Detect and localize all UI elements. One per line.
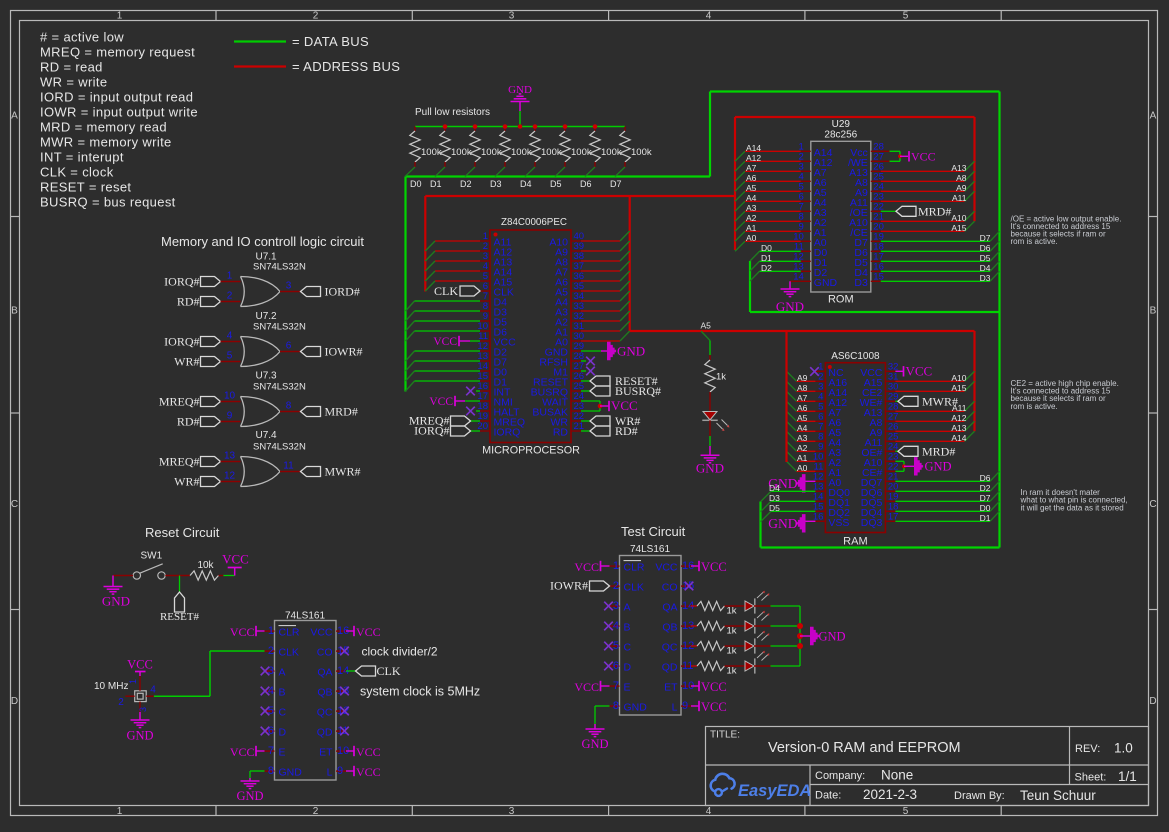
svg-text:IOWR#: IOWR# bbox=[325, 345, 363, 359]
svg-text:CLK: CLK bbox=[279, 647, 299, 659]
svg-text:2021-2-3: 2021-2-3 bbox=[863, 787, 917, 802]
svg-text:MRD#: MRD# bbox=[918, 204, 951, 218]
svg-text:VCC: VCC bbox=[230, 625, 255, 639]
svg-text:D6: D6 bbox=[580, 179, 592, 189]
svg-text:A4: A4 bbox=[746, 193, 757, 203]
svg-text:# = active low: # = active low bbox=[40, 30, 124, 45]
svg-text:VCC: VCC bbox=[356, 745, 381, 759]
svg-text:C: C bbox=[279, 707, 287, 719]
svg-text:GND: GND bbox=[696, 461, 724, 476]
svg-text:VCC: VCC bbox=[911, 150, 936, 164]
svg-text:IORQ: IORQ bbox=[494, 427, 521, 439]
svg-text:D3: D3 bbox=[769, 493, 780, 503]
svg-text:D: D bbox=[279, 727, 287, 739]
svg-text:8: 8 bbox=[286, 401, 292, 412]
svg-text:Test Circuit: Test Circuit bbox=[621, 524, 686, 539]
svg-text:QD: QD bbox=[662, 662, 678, 674]
svg-text:D7: D7 bbox=[980, 493, 991, 503]
svg-text:1/1: 1/1 bbox=[1118, 769, 1137, 784]
svg-text:D: D bbox=[624, 662, 632, 674]
svg-text:100k: 100k bbox=[601, 147, 622, 158]
svg-text:BUSRQ = bus request: BUSRQ = bus request bbox=[40, 195, 176, 210]
svg-text:4: 4 bbox=[227, 331, 233, 342]
svg-text:C: C bbox=[624, 642, 632, 654]
svg-text:SN74LS32N: SN74LS32N bbox=[253, 262, 306, 273]
svg-text:GND: GND bbox=[776, 299, 804, 314]
svg-text:A11: A11 bbox=[952, 193, 967, 203]
svg-text:2: 2 bbox=[613, 580, 619, 592]
svg-text:RD = read: RD = read bbox=[40, 60, 103, 75]
svg-text:2: 2 bbox=[313, 806, 319, 817]
svg-text:IORD = input output read: IORD = input output read bbox=[40, 90, 193, 105]
svg-text:MRD#: MRD# bbox=[325, 405, 358, 419]
svg-text:D1: D1 bbox=[980, 513, 991, 523]
svg-text:28c256: 28c256 bbox=[824, 130, 857, 141]
svg-text:ET: ET bbox=[664, 682, 678, 694]
svg-text:D2: D2 bbox=[460, 179, 472, 189]
svg-text:A5: A5 bbox=[797, 413, 808, 423]
svg-text:Version-0 RAM and EEPROM: Version-0 RAM and EEPROM bbox=[768, 740, 961, 756]
svg-text:QB: QB bbox=[317, 687, 332, 699]
svg-text:1: 1 bbox=[227, 271, 233, 282]
svg-text:A1: A1 bbox=[797, 453, 808, 463]
svg-text:QA: QA bbox=[662, 602, 677, 614]
svg-text:100k: 100k bbox=[571, 147, 592, 158]
svg-text:GND: GND bbox=[581, 737, 608, 751]
svg-text:D0: D0 bbox=[761, 243, 772, 253]
svg-text:C: C bbox=[1149, 499, 1156, 510]
svg-text:None: None bbox=[881, 768, 913, 783]
svg-text:A8: A8 bbox=[956, 173, 967, 183]
svg-text:11: 11 bbox=[283, 461, 294, 472]
svg-text:10: 10 bbox=[224, 391, 236, 402]
svg-text:4: 4 bbox=[613, 620, 619, 632]
svg-text:74LS161: 74LS161 bbox=[285, 611, 325, 622]
svg-text:VCC: VCC bbox=[356, 765, 381, 779]
svg-text:B: B bbox=[279, 687, 286, 699]
svg-text:A10: A10 bbox=[951, 373, 966, 383]
svg-text:VCC: VCC bbox=[701, 700, 727, 714]
svg-text:D1: D1 bbox=[761, 253, 772, 263]
svg-text:VCC: VCC bbox=[433, 336, 457, 348]
svg-text:CLK = clock: CLK = clock bbox=[40, 165, 114, 180]
svg-text:A2: A2 bbox=[797, 443, 808, 453]
svg-text:1k: 1k bbox=[727, 606, 737, 617]
svg-text:Company:: Company: bbox=[815, 770, 865, 782]
svg-text:VCC: VCC bbox=[310, 627, 333, 639]
svg-text:SW1: SW1 bbox=[141, 551, 163, 562]
svg-text:A5: A5 bbox=[701, 321, 712, 331]
svg-text:A12: A12 bbox=[951, 413, 966, 423]
svg-text:A9: A9 bbox=[956, 183, 967, 193]
svg-text:MRD = memory read: MRD = memory read bbox=[40, 120, 167, 135]
svg-text:GND: GND bbox=[819, 630, 846, 644]
svg-text:MREQ#: MREQ# bbox=[159, 455, 200, 469]
svg-text:11: 11 bbox=[337, 725, 348, 737]
svg-text:VCC: VCC bbox=[701, 680, 727, 694]
svg-text:A2: A2 bbox=[746, 213, 757, 223]
svg-text:74LS161: 74LS161 bbox=[630, 544, 670, 555]
svg-text:GND: GND bbox=[768, 516, 797, 531]
svg-text:12: 12 bbox=[224, 471, 236, 482]
svg-text:GND: GND bbox=[624, 702, 648, 714]
svg-text:5: 5 bbox=[227, 351, 233, 362]
svg-text:IOWR = input output write: IOWR = input output write bbox=[40, 105, 198, 120]
svg-text:A15: A15 bbox=[951, 223, 966, 233]
svg-text:EasyEDA: EasyEDA bbox=[738, 782, 811, 800]
svg-text:BUSRQ#: BUSRQ# bbox=[615, 384, 661, 398]
svg-text:Teun Schuur: Teun Schuur bbox=[1020, 788, 1096, 803]
svg-text:ET: ET bbox=[319, 747, 333, 759]
svg-text:CLK: CLK bbox=[377, 664, 401, 678]
svg-text:GND: GND bbox=[279, 767, 303, 779]
svg-text:INT = interupt: INT = interupt bbox=[40, 150, 124, 165]
svg-text:IORQ#: IORQ# bbox=[164, 335, 199, 349]
svg-text:10 MHz: 10 MHz bbox=[94, 681, 128, 692]
svg-text:A: A bbox=[624, 602, 631, 614]
svg-text:A0: A0 bbox=[746, 233, 757, 243]
svg-text:1k: 1k bbox=[727, 666, 737, 677]
svg-text:5: 5 bbox=[903, 806, 909, 817]
svg-text:RD#: RD# bbox=[177, 415, 200, 429]
svg-text:D3: D3 bbox=[980, 273, 991, 283]
svg-text:9: 9 bbox=[682, 700, 688, 712]
svg-text:7: 7 bbox=[268, 745, 274, 757]
svg-text:Z84C0006PEC: Z84C0006PEC bbox=[501, 217, 567, 228]
svg-text:A15: A15 bbox=[951, 383, 966, 393]
svg-text:2: 2 bbox=[227, 291, 233, 302]
svg-text:D3: D3 bbox=[854, 277, 868, 289]
svg-text:RD: RD bbox=[553, 427, 569, 439]
svg-text:B: B bbox=[11, 306, 18, 317]
svg-text:RESET = reset: RESET = reset bbox=[40, 180, 131, 195]
svg-text:QA: QA bbox=[317, 667, 332, 679]
svg-text:MWR = memory write: MWR = memory write bbox=[40, 135, 172, 150]
svg-text:CLR: CLR bbox=[279, 627, 300, 639]
svg-text:WR#: WR# bbox=[174, 475, 199, 489]
svg-text:MICROPROCESOR: MICROPROCESOR bbox=[482, 445, 580, 457]
svg-text:RAM: RAM bbox=[843, 536, 867, 548]
svg-text:100k: 100k bbox=[631, 147, 652, 158]
svg-text:8: 8 bbox=[613, 700, 619, 712]
svg-text:A: A bbox=[279, 667, 286, 679]
svg-text:6: 6 bbox=[286, 341, 292, 352]
svg-text:D4: D4 bbox=[520, 179, 532, 189]
svg-text:Sheet:: Sheet: bbox=[1075, 772, 1107, 784]
svg-text:VCC: VCC bbox=[906, 364, 933, 379]
svg-text:13: 13 bbox=[224, 451, 236, 462]
svg-text:U7.2: U7.2 bbox=[256, 311, 278, 322]
svg-text:U29: U29 bbox=[832, 119, 851, 130]
svg-text:1k: 1k bbox=[727, 646, 737, 657]
svg-text:D4: D4 bbox=[980, 263, 991, 273]
svg-text:A6: A6 bbox=[746, 173, 757, 183]
svg-text:1k: 1k bbox=[727, 626, 737, 637]
svg-text:D5: D5 bbox=[769, 503, 780, 513]
svg-text:4: 4 bbox=[706, 11, 712, 22]
svg-text:CLK: CLK bbox=[434, 284, 458, 298]
svg-text:rom is active.: rom is active. bbox=[1011, 237, 1058, 246]
svg-text:8: 8 bbox=[268, 765, 274, 777]
svg-text:4: 4 bbox=[706, 806, 712, 817]
svg-text:VCC: VCC bbox=[701, 560, 727, 574]
svg-text:L: L bbox=[327, 767, 333, 779]
svg-text:it will get the data as it sto: it will get the data as it stored bbox=[1021, 503, 1124, 512]
svg-text:9: 9 bbox=[227, 411, 233, 422]
svg-text:D: D bbox=[1149, 696, 1156, 707]
svg-text:VCC: VCC bbox=[611, 398, 638, 413]
svg-text:RESET#: RESET# bbox=[160, 611, 200, 623]
svg-text:D2: D2 bbox=[980, 483, 991, 493]
svg-text:= ADDRESS BUS: = ADDRESS BUS bbox=[292, 59, 400, 74]
svg-text:1.0: 1.0 bbox=[1114, 741, 1133, 756]
svg-text:3: 3 bbox=[286, 281, 292, 292]
svg-text:CLK: CLK bbox=[624, 582, 644, 594]
svg-text:A1: A1 bbox=[746, 223, 757, 233]
svg-text:A6: A6 bbox=[797, 403, 808, 413]
svg-text:A14: A14 bbox=[951, 433, 966, 443]
svg-text:GND: GND bbox=[508, 84, 532, 96]
svg-text:1: 1 bbox=[117, 11, 123, 22]
svg-text:1k: 1k bbox=[716, 372, 726, 383]
svg-text:100k: 100k bbox=[421, 147, 442, 158]
svg-text:GND: GND bbox=[126, 729, 153, 743]
svg-text:D3: D3 bbox=[490, 179, 502, 189]
svg-text:5: 5 bbox=[613, 640, 619, 652]
svg-text:D6: D6 bbox=[980, 473, 991, 483]
svg-text:1: 1 bbox=[117, 806, 123, 817]
svg-text:IORQ#: IORQ# bbox=[164, 275, 199, 289]
svg-text:VCC: VCC bbox=[230, 745, 255, 759]
svg-text:A13: A13 bbox=[951, 163, 966, 173]
svg-text:VCC: VCC bbox=[127, 658, 153, 672]
svg-text:CO: CO bbox=[317, 647, 333, 659]
svg-text:QB: QB bbox=[662, 622, 677, 634]
svg-text:U7.3: U7.3 bbox=[256, 370, 278, 381]
svg-text:VCC: VCC bbox=[574, 680, 599, 694]
svg-text:E: E bbox=[624, 682, 631, 694]
svg-text:RD#: RD# bbox=[177, 295, 200, 309]
svg-text:D7: D7 bbox=[980, 233, 991, 243]
svg-text:E: E bbox=[279, 747, 286, 759]
svg-text:100k: 100k bbox=[451, 147, 472, 158]
svg-text:clock divider/2: clock divider/2 bbox=[362, 645, 438, 659]
svg-text:A9: A9 bbox=[797, 373, 808, 383]
svg-text:D5: D5 bbox=[550, 179, 562, 189]
svg-text:MRD#: MRD# bbox=[922, 444, 955, 458]
svg-text:MWR#: MWR# bbox=[922, 394, 958, 408]
svg-text:VCC: VCC bbox=[356, 625, 381, 639]
svg-text:GND: GND bbox=[925, 460, 952, 474]
svg-text:A12: A12 bbox=[746, 153, 761, 163]
svg-text:D0: D0 bbox=[980, 503, 991, 513]
svg-text:RD#: RD# bbox=[615, 424, 638, 438]
svg-text:MREQ = memory request: MREQ = memory request bbox=[40, 45, 195, 60]
svg-text:D7: D7 bbox=[610, 179, 622, 189]
svg-text:A: A bbox=[1150, 111, 1157, 122]
svg-text:D1: D1 bbox=[430, 179, 442, 189]
svg-text:GND: GND bbox=[814, 277, 838, 289]
svg-text:A7: A7 bbox=[746, 163, 757, 173]
svg-text:IOWR#: IOWR# bbox=[550, 579, 588, 593]
svg-text:A7: A7 bbox=[797, 393, 808, 403]
svg-text:A5: A5 bbox=[746, 183, 757, 193]
svg-text:A10: A10 bbox=[951, 213, 966, 223]
svg-text:GND: GND bbox=[102, 594, 130, 609]
svg-text:2: 2 bbox=[118, 697, 124, 708]
svg-text:B: B bbox=[1150, 306, 1157, 317]
svg-text:Pull low resistors: Pull low resistors bbox=[415, 107, 490, 118]
svg-text:AS6C1008: AS6C1008 bbox=[831, 351, 880, 362]
svg-text:L: L bbox=[672, 702, 678, 714]
svg-text:QC: QC bbox=[317, 707, 333, 719]
svg-text:= DATA BUS: = DATA BUS bbox=[292, 34, 369, 49]
svg-text:TITLE:: TITLE: bbox=[710, 730, 740, 741]
svg-text:3: 3 bbox=[138, 707, 148, 712]
svg-text:A3: A3 bbox=[797, 433, 808, 443]
svg-text:100k: 100k bbox=[511, 147, 532, 158]
svg-text:QD: QD bbox=[317, 727, 333, 739]
svg-text:WR#: WR# bbox=[174, 355, 199, 369]
svg-text:QC: QC bbox=[662, 642, 678, 654]
svg-text:D: D bbox=[11, 696, 18, 707]
svg-text:1: 1 bbox=[268, 625, 274, 637]
svg-text:5: 5 bbox=[903, 11, 909, 22]
svg-text:IORD#: IORD# bbox=[325, 285, 360, 299]
svg-text:D0: D0 bbox=[410, 179, 422, 189]
svg-text:SN74LS32N: SN74LS32N bbox=[253, 442, 306, 453]
svg-text:100k: 100k bbox=[541, 147, 562, 158]
svg-text:MREQ#: MREQ# bbox=[159, 395, 200, 409]
svg-text:REV:: REV: bbox=[1075, 743, 1100, 755]
svg-text:Memory and IO controll logic c: Memory and IO controll logic circuit bbox=[161, 234, 364, 249]
svg-text:A: A bbox=[11, 111, 18, 122]
svg-text:U7.4: U7.4 bbox=[256, 430, 278, 441]
svg-text:3: 3 bbox=[509, 806, 515, 817]
svg-text:3: 3 bbox=[509, 11, 515, 22]
svg-text:1: 1 bbox=[613, 560, 619, 572]
svg-text:A4: A4 bbox=[797, 423, 808, 433]
svg-text:WR = write: WR = write bbox=[40, 75, 107, 90]
svg-text:CO: CO bbox=[662, 582, 678, 594]
svg-text:9: 9 bbox=[337, 765, 343, 777]
svg-text:B: B bbox=[624, 622, 631, 634]
svg-text:D6: D6 bbox=[980, 243, 991, 253]
svg-text:2: 2 bbox=[268, 645, 274, 657]
svg-text:Date:: Date: bbox=[815, 790, 841, 802]
svg-text:D2: D2 bbox=[761, 263, 772, 273]
svg-text:A13: A13 bbox=[951, 423, 966, 433]
svg-text:100k: 100k bbox=[481, 147, 502, 158]
svg-text:A3: A3 bbox=[746, 203, 757, 213]
svg-text:A14: A14 bbox=[746, 143, 761, 153]
svg-text:VCC: VCC bbox=[222, 552, 249, 567]
svg-text:IORQ#: IORQ# bbox=[414, 424, 449, 438]
svg-text:2: 2 bbox=[313, 11, 319, 22]
svg-text:1: 1 bbox=[128, 679, 138, 684]
svg-text:SN74LS32N: SN74LS32N bbox=[253, 382, 306, 393]
svg-text:MWR#: MWR# bbox=[325, 465, 361, 479]
svg-text:Reset Circuit: Reset Circuit bbox=[145, 525, 220, 540]
svg-text:rom is active.: rom is active. bbox=[1011, 402, 1058, 411]
svg-text:D5: D5 bbox=[980, 253, 991, 263]
svg-text:VCC: VCC bbox=[574, 560, 599, 574]
svg-text:Drawn By:: Drawn By: bbox=[954, 790, 1005, 802]
svg-text:VSS: VSS bbox=[828, 517, 849, 529]
svg-text:GND: GND bbox=[617, 344, 645, 359]
svg-text:GND: GND bbox=[236, 789, 263, 803]
svg-text:VCC: VCC bbox=[429, 396, 453, 408]
svg-text:6: 6 bbox=[613, 660, 619, 672]
svg-text:4: 4 bbox=[150, 685, 156, 696]
svg-text:CLR: CLR bbox=[624, 562, 645, 574]
svg-text:VCC: VCC bbox=[655, 562, 678, 574]
svg-text:ROM: ROM bbox=[828, 294, 854, 306]
svg-text:A0: A0 bbox=[797, 463, 808, 473]
svg-text:C: C bbox=[11, 499, 18, 510]
svg-text:3: 3 bbox=[613, 600, 619, 612]
svg-text:system clock is 5MHz: system clock is 5MHz bbox=[360, 685, 480, 699]
svg-text:A8: A8 bbox=[797, 383, 808, 393]
svg-text:7: 7 bbox=[613, 680, 619, 692]
svg-text:DQ3: DQ3 bbox=[861, 517, 883, 529]
svg-text:10k: 10k bbox=[197, 560, 214, 571]
svg-text:SN74LS32N: SN74LS32N bbox=[253, 322, 306, 333]
svg-text:D4: D4 bbox=[769, 483, 780, 493]
